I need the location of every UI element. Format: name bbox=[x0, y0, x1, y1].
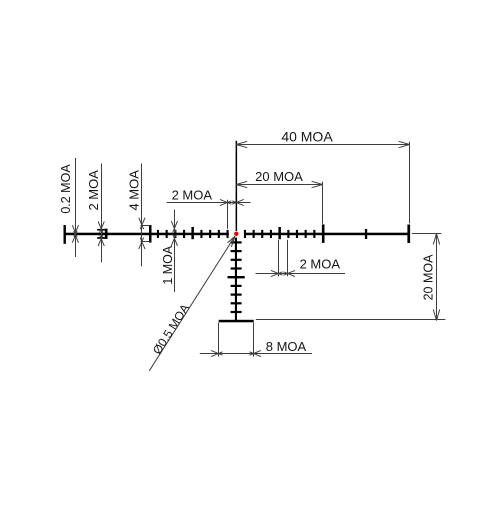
right 10 MOA taller tick bbox=[278, 227, 281, 239]
left 10 MOA taller tick bbox=[191, 227, 194, 239]
left wing small ticks bbox=[157, 230, 229, 238]
reticle horizontal line left segment bbox=[64, 233, 229, 236]
svg-text:2 MOA: 2 MOA bbox=[172, 188, 213, 203]
dimension 0.2 MOA bbox=[72, 158, 78, 257]
dimension 2 MOA right bbox=[256, 240, 346, 277]
svg-text:4 MOA: 4 MOA bbox=[127, 170, 142, 211]
right wing small ticks bbox=[244, 230, 316, 238]
right end cap bbox=[407, 225, 410, 244]
left end cap bbox=[64, 225, 66, 244]
dimension 8 MOA bbox=[200, 323, 312, 357]
leader line for center dot diameter bbox=[149, 236, 235, 371]
svg-text:20 MOA: 20 MOA bbox=[255, 169, 303, 184]
dimension 4 MOA bbox=[139, 164, 150, 267]
reticle horizontal line right segment bbox=[244, 233, 410, 236]
bottom 8 MOA bar bbox=[219, 320, 254, 323]
upper vertical post / extension bbox=[236, 141, 238, 231]
lower post 10 MOA wide tick bbox=[228, 276, 245, 278]
left 30 MOA tick bbox=[105, 229, 108, 239]
svg-text:1 MOA: 1 MOA bbox=[161, 245, 175, 285]
svg-text:2 MOA: 2 MOA bbox=[86, 170, 101, 211]
dimension 2 MOA left bbox=[98, 164, 104, 263]
dimension 2 MOA top center bbox=[167, 199, 251, 228]
svg-text:2 MOA: 2 MOA bbox=[300, 256, 341, 271]
lower post small ticks bbox=[231, 241, 242, 313]
svg-text:40 MOA: 40 MOA bbox=[281, 128, 333, 144]
left 20 MOA tall tick bbox=[149, 225, 152, 243]
svg-text:8 MOA: 8 MOA bbox=[266, 339, 307, 354]
dimension 40 MOA bbox=[236, 141, 409, 223]
dimension 20 MOA right bbox=[256, 234, 445, 321]
dimension 1 MOA bbox=[171, 210, 177, 292]
svg-text:20 MOA: 20 MOA bbox=[421, 254, 435, 301]
svg-text:0.2 MOA: 0.2 MOA bbox=[59, 164, 73, 214]
lower vertical post bbox=[235, 238, 237, 320]
svg-text:Ø0.5 MOA: Ø0.5 MOA bbox=[150, 301, 192, 356]
right 30 MOA medium tick bbox=[365, 229, 367, 239]
left 30 MOA bracket bottom bar bbox=[97, 237, 105, 239]
right 20 MOA tall tick bbox=[322, 224, 325, 243]
left 30 MOA bracket top bar bbox=[97, 229, 105, 231]
red center dot bbox=[234, 232, 238, 236]
dimension 20 MOA top bbox=[236, 181, 322, 224]
